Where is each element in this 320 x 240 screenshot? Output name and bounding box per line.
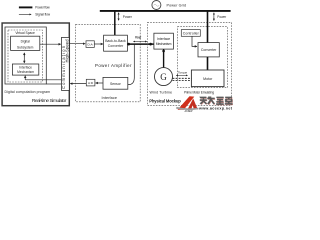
wire Digital Subsystem to High-Speed Communication bbox=[40, 43, 61, 45]
svg-text:Power flow: Power flow bbox=[35, 6, 50, 10]
Interface Mechanism box (simulator) bbox=[12, 64, 38, 75]
svg-text:Interface: Interface bbox=[19, 66, 32, 70]
Digital computation program solid box bbox=[5, 27, 46, 84]
svg-text:Mechanism: Mechanism bbox=[156, 42, 172, 46]
svg-text:Interface: Interface bbox=[102, 96, 118, 100]
svg-text:Motor: Motor bbox=[203, 77, 213, 81]
wire Controller to Converter bbox=[192, 36, 197, 46]
Sensor box bbox=[103, 77, 128, 89]
watermark logo bbox=[176, 96, 233, 113]
svg-text:Power Grid: Power Grid bbox=[167, 3, 187, 7]
svg-text:Digital: Digital bbox=[21, 39, 30, 43]
junction dot at physical mockup boundary bbox=[149, 43, 152, 46]
legend signal flow arrow bbox=[19, 13, 31, 15]
wire D:A to Back-to-Back Converter bbox=[94, 43, 103, 45]
Converter box bbox=[198, 43, 219, 57]
Motor box bbox=[191, 70, 224, 87]
svg-text:Converter: Converter bbox=[201, 48, 217, 52]
Power Amplifier / Interface dashed box bbox=[76, 24, 141, 102]
sensor tap wire from power line down to Sensor bbox=[128, 45, 134, 85]
bidirectional wire Digital Subsystem - Interface Mechanism bbox=[23, 53, 25, 57]
A:D box bbox=[86, 79, 95, 86]
svg-text:www.aceexp.net: www.aceexp.net bbox=[198, 106, 233, 110]
svg-text:Power: Power bbox=[217, 15, 227, 19]
Interface Mechanism box (physical) bbox=[154, 33, 174, 49]
svg-text:Power: Power bbox=[123, 15, 133, 19]
power exchange arrow left bbox=[118, 13, 120, 21]
legend power flow line bbox=[19, 6, 33, 8]
svg-text:Mechanism: Mechanism bbox=[17, 70, 34, 74]
svg-text:Power: Power bbox=[135, 35, 142, 39]
junction dot below interface mechanism bbox=[162, 50, 165, 53]
svg-text:Real-time Simulator: Real-time Simulator bbox=[32, 98, 67, 104]
generator G circle bbox=[155, 68, 173, 86]
thick wire Back-to-Back Converter to Interface Mechanism bbox=[127, 43, 153, 45]
svg-text:Converter: Converter bbox=[108, 44, 124, 48]
shaft between G and Motor (dashed) bbox=[173, 77, 192, 79]
svg-text:Virtual Space: Virtual Space bbox=[15, 31, 35, 35]
svg-text:Subsystem: Subsystem bbox=[17, 46, 34, 50]
Virtual Space dashed box bbox=[8, 30, 42, 82]
svg-text:Controller: Controller bbox=[183, 32, 200, 36]
thick wire Interface Mechanism down to generator bbox=[163, 49, 165, 68]
power exchange arrow right bbox=[213, 13, 215, 21]
Controller box bbox=[181, 30, 200, 37]
Prime Motor Emulating dashed box bbox=[178, 27, 228, 88]
power grid bus bar bbox=[100, 10, 231, 12]
riser bus to Converter bbox=[207, 11, 209, 43]
svg-text:AKSEP: AKSEP bbox=[184, 110, 193, 113]
svg-text:Prime Motor Emulating: Prime Motor Emulating bbox=[184, 90, 214, 94]
svg-text:Physical Mockup: Physical Mockup bbox=[149, 99, 181, 104]
double arrow torque bbox=[176, 74, 187, 76]
svg-text:Signal flow: Signal flow bbox=[35, 13, 50, 17]
svg-text:Torque: Torque bbox=[178, 71, 188, 75]
Digital Subsystem box bbox=[11, 36, 40, 50]
svg-text:Digital computation program: Digital computation program bbox=[5, 90, 51, 94]
Physical Mockup dashed box bbox=[147, 23, 231, 106]
D:A box bbox=[86, 41, 94, 48]
svg-text:Wind Turbine: Wind Turbine bbox=[150, 91, 173, 95]
wire feedback horizontal from High-Speed Communication bbox=[25, 79, 61, 81]
riser bus to Back-to-Back Converter bbox=[114, 11, 116, 35]
thick wire Converter down to Motor bbox=[207, 57, 209, 70]
Real-time Simulator outer box bbox=[2, 23, 69, 106]
wire A:D to High-Speed Communication bbox=[70, 83, 86, 85]
svg-text:G: G bbox=[160, 72, 167, 82]
wire High-Speed Communication to D:A bbox=[69, 43, 85, 45]
junction dot at converter output bbox=[127, 43, 130, 46]
Back-to-Back Converter box bbox=[104, 35, 128, 51]
svg-text:Interface: Interface bbox=[157, 37, 170, 41]
AC source circle (power grid) bbox=[152, 1, 161, 10]
svg-text:Back-to-Back: Back-to-Back bbox=[105, 39, 126, 43]
wire Interface Mechanism up-arrow from feedback line bbox=[24, 76, 26, 80]
wire from Digital computation program box to High-Speed Communication bbox=[46, 83, 61, 85]
double arrow power bbox=[133, 41, 146, 43]
svg-text:A:D: A:D bbox=[88, 81, 94, 85]
High Speed Communication box bbox=[62, 37, 70, 90]
wire Sensor to A:D bbox=[96, 82, 103, 84]
svg-text:Sensor: Sensor bbox=[110, 82, 122, 86]
svg-text:Power Amplifier: Power Amplifier bbox=[95, 63, 132, 68]
